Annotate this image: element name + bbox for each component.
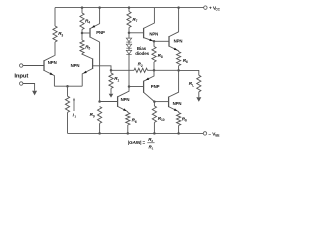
- svg-text:1: 1: [152, 147, 154, 151]
- resistor R9: [98, 107, 102, 124]
- node Q7 base - R9: [98, 100, 101, 103]
- svg-text:1: 1: [74, 115, 76, 119]
- svg-text:NPN: NPN: [48, 60, 57, 65]
- node rail-R10: [153, 132, 156, 135]
- wire R2 to output column: [148, 69, 179, 71]
- terminal input top: [20, 64, 23, 67]
- node diode-chain - Q7 collector - Q6 base: [128, 85, 131, 88]
- node output junction: [177, 69, 180, 72]
- resistor R5 (lower divider): [81, 33, 83, 40]
- transistor Q1 input NPN left: [43, 60, 45, 71]
- transistor Q7 driver NPN (bottom middle-left): [117, 96, 119, 107]
- current arrow I1: [73, 100, 75, 112]
- svg-text:NPN: NPN: [71, 63, 80, 68]
- svg-text:EE: EE: [215, 134, 219, 138]
- svg-text:CC: CC: [215, 8, 220, 12]
- resistor R4 (upper divider): [81, 8, 83, 13]
- resistor R6c (Q8 emitter resistor): [178, 112, 180, 113]
- svg-text:L: L: [192, 83, 194, 87]
- resistor R1 to ground: [110, 70, 112, 73]
- resistor R6 (top output emitter resistor): [178, 50, 180, 53]
- wire Q3 collector down to driver base: [99, 42, 101, 102]
- wire feedback node to R2: [111, 69, 134, 71]
- wire top +Vcc supply rail: [55, 7, 204, 9]
- diode D3 bias: [128, 48, 130, 50]
- node R8-R2-PNP emitter junction: [153, 69, 156, 72]
- resistor R8: [153, 41, 155, 46]
- svg-text:10: 10: [161, 118, 165, 122]
- resistor I1 tail current source: [67, 86, 69, 96]
- transistor Q2 input NPN right (mirrored): [92, 58, 94, 69]
- resistor R2 feedback (horizontal): [134, 68, 148, 72]
- node R4-R5-PNP1 base junction: [81, 32, 84, 35]
- terminal input bottom: [20, 82, 23, 85]
- wire output to load: [179, 70, 199, 75]
- svg-text:Input: Input: [14, 74, 28, 80]
- svg-text:6: 6: [185, 119, 187, 123]
- wire input bottom to ground: [23, 84, 35, 91]
- ground input reference: [32, 91, 37, 96]
- node Q4 emitter - R8 - Q5 base: [153, 40, 156, 43]
- svg-text:6: 6: [135, 120, 137, 124]
- svg-text:NPN: NPN: [173, 101, 182, 106]
- node rail-R3 junction: [81, 6, 84, 9]
- ground R1: [109, 94, 114, 98]
- svg-text:|GAIN| =: |GAIN| =: [128, 140, 146, 145]
- wire bottom -Vee supply rail: [68, 132, 204, 134]
- node rail-R6b: [127, 132, 130, 135]
- resistor RL load: [197, 75, 201, 92]
- svg-text:PNP: PNP: [96, 30, 105, 35]
- node rail-R7 junction: [128, 6, 131, 9]
- resistor R6b (Q7 emitter resistor): [127, 112, 129, 113]
- resistor R3 (left collector load): [54, 8, 56, 26]
- svg-text:PNP: PNP: [151, 84, 160, 89]
- terminal -VEE: [203, 132, 206, 135]
- svg-text:6: 6: [186, 60, 188, 64]
- wire to Q4 base: [129, 32, 144, 34]
- terminal +VCC: [204, 6, 207, 9]
- svg-text:1: 1: [117, 78, 119, 82]
- diode D1 bias: [128, 33, 130, 38]
- wire Q2 base to feedback node: [93, 66, 111, 71]
- resistor R10: [153, 102, 155, 106]
- diode D2 bias: [128, 42, 130, 44]
- wire diode chain down to PNP driver base (crosses feedback line): [128, 54, 130, 87]
- svg-text:2: 2: [141, 64, 143, 68]
- transistor Q3 PNP first stage: [89, 28, 91, 37]
- transistor Q6 lower driver PNP: [143, 81, 145, 93]
- ground RL: [196, 97, 201, 102]
- svg-text:4: 4: [88, 21, 90, 25]
- node R7-diodes-Q4 base junction: [128, 32, 131, 35]
- node rail-R6c: [177, 132, 180, 135]
- svg-text:NPN: NPN: [121, 97, 130, 102]
- node rail-PNP1-emitter junction: [98, 6, 101, 9]
- svg-text:5: 5: [88, 47, 90, 51]
- transistor Q4 upper driver NPN: [143, 28, 145, 38]
- resistor R7 (bias chain top): [128, 8, 130, 12]
- node feedback junction R1-R2: [110, 69, 113, 72]
- svg-text:8: 8: [161, 55, 163, 59]
- svg-text:diodes: diodes: [135, 51, 149, 56]
- svg-text:NPN: NPN: [149, 31, 158, 36]
- svg-text:9: 9: [93, 114, 95, 118]
- wire emitter bar of differential pair: [54, 85, 82, 87]
- node rail-Q4-collector junction: [177, 6, 180, 9]
- node Q6 collector - R10 - Q8 base: [153, 100, 156, 103]
- svg-text:3: 3: [61, 33, 63, 37]
- transistor Q5 output NPN top: [154, 40, 169, 42]
- svg-text:7: 7: [136, 19, 138, 23]
- node emitter junction: [66, 85, 69, 88]
- svg-text:NPN: NPN: [174, 39, 183, 44]
- node rail-R9: [98, 132, 101, 135]
- transistor Q8 output NPN bottom: [168, 97, 170, 108]
